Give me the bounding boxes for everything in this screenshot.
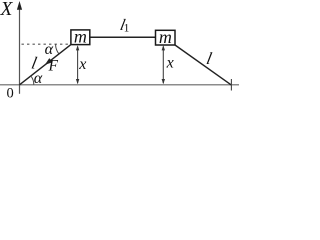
svg-text:α: α bbox=[34, 70, 43, 87]
svg-text:0: 0 bbox=[7, 86, 14, 102]
svg-text:1: 1 bbox=[124, 22, 130, 34]
svg-text:l: l bbox=[205, 49, 214, 68]
svg-text:m: m bbox=[159, 27, 172, 47]
svg-text:α: α bbox=[45, 41, 54, 58]
svg-text:F: F bbox=[48, 57, 59, 74]
svg-text:X: X bbox=[0, 0, 14, 20]
svg-text:x: x bbox=[166, 55, 174, 72]
svg-text:x: x bbox=[78, 56, 86, 73]
svg-text:m: m bbox=[74, 26, 87, 46]
